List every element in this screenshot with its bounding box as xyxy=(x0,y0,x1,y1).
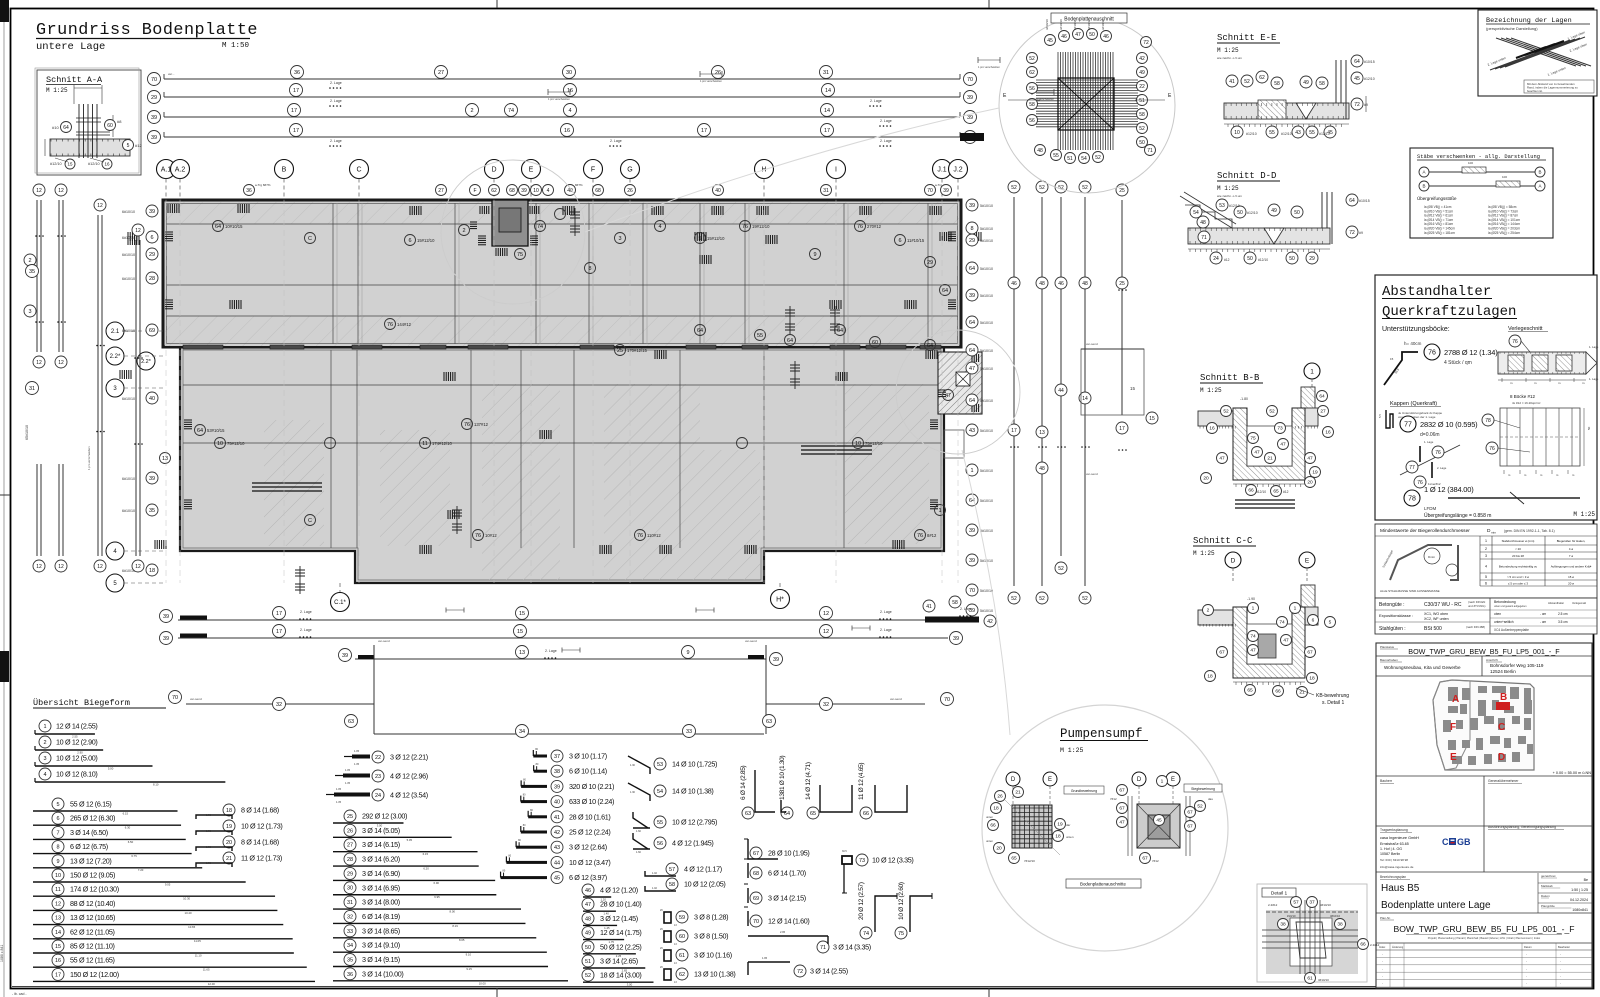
svg-text:46: 46 xyxy=(1061,34,1067,40)
svg-text:3#10/10: 3#10/10 xyxy=(1320,903,1331,907)
svg-text:42: 42 xyxy=(987,619,993,625)
svg-text:-: - xyxy=(1526,974,1527,978)
svg-text:74: 74 xyxy=(1279,620,1285,626)
svg-text:oben: oben xyxy=(1494,612,1501,616)
svg-text:3 Ø 14 (5.05): 3 Ø 14 (5.05) xyxy=(362,826,400,835)
svg-text:4x #12 = 16.20qm/m²: 4x #12 = 16.20qm/m² xyxy=(1512,401,1540,405)
svg-text:47: 47 xyxy=(585,902,591,908)
svg-text:5#10/10: 5#10/10 xyxy=(980,589,993,593)
svg-text:33: 33 xyxy=(686,729,692,735)
svg-text:3 Ø 8 (1.28): 3 Ø 8 (1.28) xyxy=(694,913,728,922)
svg-text:39: 39 xyxy=(953,636,959,642)
svg-text:53: 53 xyxy=(657,762,663,768)
svg-text:56: 56 xyxy=(1029,86,1035,92)
svg-text:5#10/10: 5#10/10 xyxy=(980,609,993,613)
svg-text:54: 54 xyxy=(657,789,663,795)
svg-text:2.2*: 2.2* xyxy=(110,354,121,360)
svg-text:Schnitt E-E: Schnitt E-E xyxy=(1217,33,1276,43)
svg-text:Dmin: Dmin xyxy=(1428,555,1435,559)
svg-text:72: 72 xyxy=(1354,102,1360,108)
svg-text:6.30: 6.30 xyxy=(125,826,131,830)
svg-text:3 Ø 14 (10.00): 3 Ø 14 (10.00) xyxy=(362,969,403,978)
svg-text:Schnitt B-B: Schnitt B-B xyxy=(1200,373,1260,383)
svg-text:76: 76 xyxy=(1512,339,1518,345)
svg-text:75#12/10: 75#12/10 xyxy=(865,441,883,446)
svg-text:64: 64 xyxy=(969,320,975,326)
svg-text:68: 68 xyxy=(509,188,515,194)
svg-text:E: E xyxy=(529,167,534,174)
svg-text:43: 43 xyxy=(1295,130,1301,136)
svg-text:12.00: 12.00 xyxy=(208,982,215,986)
svg-text:4 ø: 4 ø xyxy=(1569,547,1573,551)
svg-text:+ 0.00 = 55.00 m ü.NN: + 0.00 = 55.00 m ü.NN xyxy=(1553,771,1592,775)
svg-text:6: 6 xyxy=(1485,582,1487,586)
svg-text:Bodenplatte untere Lage: Bodenplatte untere Lage xyxy=(1381,900,1491,911)
svg-text:6.95: 6.95 xyxy=(434,895,440,899)
svg-text:-: - xyxy=(1526,982,1527,986)
svg-text:- cm: - cm xyxy=(1540,612,1547,616)
svg-text:47: 47 xyxy=(969,366,975,372)
svg-text:Index: Index xyxy=(1379,945,1386,949)
svg-text:47: 47 xyxy=(1119,820,1125,826)
svg-text:67: 67 xyxy=(1119,788,1125,794)
svg-text:76: 76 xyxy=(1417,480,1423,486)
svg-text:< 20: < 20 xyxy=(1515,547,1521,551)
svg-text:37: 37 xyxy=(1309,900,1315,906)
svg-text:38: 38 xyxy=(554,769,560,775)
svg-text:5#10/10: 5#10/10 xyxy=(980,267,993,271)
svg-text:52: 52 xyxy=(1011,185,1017,191)
svg-text:67: 67 xyxy=(753,851,759,857)
svg-text:1 Ø 12 (384.00): 1 Ø 12 (384.00) xyxy=(1424,485,1474,494)
svg-text:71: 71 xyxy=(820,945,826,951)
svg-text:40: 40 xyxy=(149,396,155,402)
svg-text:15: 15 xyxy=(1130,386,1136,391)
svg-text:67: 67 xyxy=(1119,806,1125,812)
svg-text:Querkraftzulagen: Querkraftzulagen xyxy=(1382,304,1516,320)
svg-text:-1.90: -1.90 xyxy=(1247,597,1255,601)
svg-text:G: G xyxy=(627,167,632,174)
svg-text:20 Ø 12 (2.57): 20 Ø 12 (2.57) xyxy=(858,882,865,920)
svg-text:39: 39 xyxy=(342,653,348,659)
svg-text:Plangröße: Plangröße xyxy=(1541,904,1555,908)
svg-text:5: 5 xyxy=(698,236,701,242)
svg-text:50: 50 xyxy=(1289,256,1295,262)
svg-text:10587 Berlin: 10587 Berlin xyxy=(1380,852,1400,856)
svg-text:2-3#12: 2-3#12 xyxy=(1370,943,1380,947)
svg-text:A: A xyxy=(1538,184,1541,189)
svg-text:- ib. cad -: - ib. cad - xyxy=(12,992,27,996)
svg-text:52: 52 xyxy=(1082,185,1088,191)
svg-text:46: 46 xyxy=(1103,34,1109,40)
svg-text:33: 33 xyxy=(347,929,353,935)
svg-text:10: 10 xyxy=(1234,130,1240,136)
svg-text:2. Lage: 2. Lage xyxy=(880,610,892,614)
svg-text:unten und gesamt aufgegeben: unten und gesamt aufgegeben xyxy=(1494,605,1527,608)
svg-text:10: 10 xyxy=(533,188,539,194)
svg-text:E: E xyxy=(1305,557,1310,564)
svg-text:51: 51 xyxy=(1067,156,1073,162)
svg-text:11.65: 11.65 xyxy=(203,968,210,972)
svg-text:ver-send: ver-send xyxy=(378,639,390,643)
svg-text:Betondeckung: Betondeckung xyxy=(1494,600,1516,604)
svg-text:#12/10: #12/10 xyxy=(1246,132,1257,136)
svg-text:6 Ø 10 (1.14): 6 Ø 10 (1.14) xyxy=(569,767,607,776)
svg-text:ver-send: ver-send xyxy=(190,697,202,701)
svg-text:30: 30 xyxy=(347,886,353,892)
svg-text:20: 20 xyxy=(226,840,232,846)
svg-text:4 Ø 12 (1.17): 4 Ø 12 (1.17) xyxy=(684,865,722,874)
svg-text:Schnitt A-A: Schnitt A-A xyxy=(46,75,103,85)
svg-text:15: 15 xyxy=(1390,357,1394,361)
svg-text:6.15: 6.15 xyxy=(423,852,429,856)
svg-text:D: D xyxy=(1498,752,1505,763)
svg-text:1: 1 xyxy=(1252,606,1255,612)
svg-text:Wohnungsneubau, Kita und Gewer: Wohnungsneubau, Kita und Gewerbe xyxy=(1384,665,1461,670)
svg-text:58: 58 xyxy=(1029,102,1035,108)
svg-text:A.2: A.2 xyxy=(175,167,186,174)
svg-text:64: 64 xyxy=(215,224,221,230)
svg-text:39: 39 xyxy=(969,203,975,209)
svg-text:I: I xyxy=(835,167,837,174)
svg-text:18: 18 xyxy=(149,568,155,574)
svg-text:26: 26 xyxy=(347,828,353,834)
svg-text:58: 58 xyxy=(952,600,958,606)
svg-text:63: 63 xyxy=(348,719,354,725)
svg-text:1. Hof | 4. OG: 1. Hof | 4. OG xyxy=(1380,847,1402,851)
svg-text:2.95: 2.95 xyxy=(780,930,786,934)
svg-text:48: 48 xyxy=(1039,466,1045,472)
svg-text:75: 75 xyxy=(898,931,904,937)
svg-text:21: 21 xyxy=(1015,790,1021,796)
svg-text:C: C xyxy=(308,518,312,524)
svg-text:10 Ø 12 (2.795): 10 Ø 12 (2.795) xyxy=(672,818,717,827)
svg-text:und ZTV-ING): und ZTV-ING) xyxy=(1468,604,1485,608)
svg-text:E: E xyxy=(1048,777,1052,783)
svg-text:39: 39 xyxy=(554,784,560,790)
svg-text:6 Ø 12 (6.75): 6 Ø 12 (6.75) xyxy=(70,842,108,851)
svg-text:15 ø: 15 ø xyxy=(1568,575,1574,579)
svg-text:39: 39 xyxy=(967,95,973,101)
svg-text:Stahlgüten :: Stahlgüten : xyxy=(1379,626,1406,632)
svg-text:Ernststraße 63-65: Ernststraße 63-65 xyxy=(1380,842,1409,846)
svg-text:270#12: 270#12 xyxy=(867,224,882,229)
svg-text:1. Lage: 1. Lage xyxy=(1589,377,1599,381)
svg-text:174#12/10: 174#12/10 xyxy=(432,441,452,446)
svg-text:2. Lage: 2. Lage xyxy=(870,99,882,103)
svg-text:2: 2 xyxy=(470,108,473,114)
svg-text:5#10/10: 5#10/10 xyxy=(980,499,993,503)
svg-text:633 Ø 10 (2.24): 633 Ø 10 (2.24) xyxy=(569,797,614,806)
svg-text:66: 66 xyxy=(990,823,996,829)
svg-text:7#12: 7#12 xyxy=(1152,859,1159,863)
svg-text:5.00: 5.00 xyxy=(108,766,114,770)
svg-text:9.05: 9.05 xyxy=(165,882,171,886)
svg-text:J.1: J.1 xyxy=(937,167,946,174)
svg-text:64: 64 xyxy=(1354,59,1360,65)
svg-text:76: 76 xyxy=(1489,446,1495,452)
svg-text:50 Ø 12 (2.25): 50 Ø 12 (2.25) xyxy=(600,942,641,951)
svg-text:beachten ist.: beachten ist. xyxy=(1527,89,1543,93)
svg-text:3#10/10: 3#10/10 xyxy=(1087,19,1091,30)
svg-text:11 Ø 12 (4.65): 11 Ø 12 (4.65) xyxy=(858,763,865,800)
svg-text:52: 52 xyxy=(585,973,591,979)
svg-text:7#12: 7#12 xyxy=(1110,797,1117,801)
svg-text:13: 13 xyxy=(519,650,525,656)
svg-text:76: 76 xyxy=(1435,450,1441,456)
svg-text:10: 10 xyxy=(217,441,223,447)
svg-text:2.5 cm: 2.5 cm xyxy=(1558,612,1568,616)
svg-text:10 Ø 12 (2.60): 10 Ø 12 (2.60) xyxy=(898,882,905,920)
svg-text:6.90: 6.90 xyxy=(434,881,440,885)
svg-text:3: 3 xyxy=(43,756,46,762)
svg-text:14 Ø 10 (1.725): 14 Ø 10 (1.725) xyxy=(672,760,717,769)
svg-text:42: 42 xyxy=(554,830,560,836)
svg-text:68: 68 xyxy=(595,188,601,194)
svg-text:C: C xyxy=(308,236,312,242)
svg-text:61: 61 xyxy=(1307,976,1313,982)
svg-text:64: 64 xyxy=(1349,198,1355,204)
svg-text:3 Ø 14 (2.55): 3 Ø 14 (2.55) xyxy=(810,967,848,976)
svg-text:1: 1 xyxy=(970,468,973,474)
svg-text:64: 64 xyxy=(969,266,975,272)
svg-text:casa Ingenieure GmbH: casa Ingenieure GmbH xyxy=(1380,836,1419,840)
svg-text:52: 52 xyxy=(1139,126,1145,132)
svg-text:Biegerollen für Haken,: Biegerollen für Haken, xyxy=(1557,539,1586,543)
svg-text:64: 64 xyxy=(837,328,843,334)
svg-text:77: 77 xyxy=(1409,465,1415,471)
svg-text:66: 66 xyxy=(1360,942,1366,948)
svg-text:10 Ø 12 (1.73): 10 Ø 12 (1.73) xyxy=(241,822,282,831)
svg-text:54: 54 xyxy=(1081,156,1087,162)
svg-text:76: 76 xyxy=(464,422,470,428)
svg-text:D: D xyxy=(1011,777,1016,783)
svg-text:1 pro verschweben: 1 pro verschweben xyxy=(700,79,722,83)
svg-text:h= 40cm: h= 40cm xyxy=(1404,341,1422,346)
svg-text:GB: GB xyxy=(1457,837,1471,847)
svg-text:48: 48 xyxy=(1200,220,1206,226)
svg-text:12: 12 xyxy=(58,564,64,570)
svg-text:67: 67 xyxy=(1142,856,1148,862)
svg-text:37: 37 xyxy=(554,754,560,760)
svg-text:E: E xyxy=(1450,752,1457,763)
svg-text:2-3#12: 2-3#12 xyxy=(1268,903,1278,907)
svg-text:9: 9 xyxy=(56,859,59,865)
svg-text:47: 47 xyxy=(1307,456,1313,462)
svg-text:3 Ø 10 (1.17): 3 Ø 10 (1.17) xyxy=(569,752,607,761)
svg-text:32: 32 xyxy=(347,914,353,920)
svg-text:58: 58 xyxy=(1274,81,1280,87)
svg-text:47: 47 xyxy=(1075,32,1081,38)
svg-text:2. Lage: 2. Lage xyxy=(610,139,622,143)
svg-text:#10/15: #10/15 xyxy=(1364,60,1375,64)
svg-text:55: 55 xyxy=(757,333,763,339)
svg-text:320 Ø 10 (2.21): 320 Ø 10 (2.21) xyxy=(569,782,614,791)
svg-text:15: 15 xyxy=(67,162,73,167)
svg-text:47: 47 xyxy=(1283,638,1289,644)
svg-text:> 5 cm und > 3 ø: > 5 cm und > 3 ø xyxy=(1507,575,1529,579)
svg-text:29: 29 xyxy=(927,260,933,266)
svg-text:12: 12 xyxy=(36,188,42,194)
svg-text:3#10/10: 3#10/10 xyxy=(1059,19,1063,30)
svg-text:1.38: 1.38 xyxy=(206,829,212,833)
svg-text:19: 19 xyxy=(226,824,232,830)
svg-text:17: 17 xyxy=(276,629,282,635)
svg-text:69: 69 xyxy=(149,328,155,334)
svg-text:39: 39 xyxy=(969,558,975,564)
svg-text:1.05: 1.05 xyxy=(354,749,360,753)
svg-text:2788 Ø 12 (1.34): 2788 Ø 12 (1.34) xyxy=(1444,348,1498,357)
svg-text:76: 76 xyxy=(917,533,923,539)
svg-text:#12: #12 xyxy=(1283,490,1289,494)
svg-text:70: 70 xyxy=(967,77,973,83)
svg-text:70: 70 xyxy=(151,77,157,83)
svg-text:-: - xyxy=(1382,982,1383,986)
svg-text:3: 3 xyxy=(1485,554,1487,558)
svg-text:#12/10: #12/10 xyxy=(1229,204,1240,208)
svg-text:-: - xyxy=(1560,967,1561,971)
svg-text:25 Ø 12 (2.24): 25 Ø 12 (2.24) xyxy=(569,828,610,837)
svg-text:1: 1 xyxy=(938,508,941,514)
svg-text:2. Lage: 2. Lage xyxy=(960,607,972,611)
svg-text:26: 26 xyxy=(715,70,721,76)
svg-text:27: 27 xyxy=(438,70,444,76)
svg-text:17: 17 xyxy=(293,88,299,94)
svg-text:66: 66 xyxy=(1275,689,1281,695)
svg-text:C: C xyxy=(356,167,361,174)
svg-text:4 Ø 12 (2.96): 4 Ø 12 (2.96) xyxy=(390,772,428,781)
svg-text:C: C xyxy=(1498,722,1505,733)
svg-text:66: 66 xyxy=(863,811,869,817)
svg-text:14 Ø 12 (4.71): 14 Ø 12 (4.71) xyxy=(805,762,812,800)
svg-text:ver-send: ver-send xyxy=(1086,342,1098,346)
svg-text:52: 52 xyxy=(1039,596,1045,602)
svg-text:#10: #10 xyxy=(52,125,59,130)
svg-text:55 Ø 12 (11.65): 55 Ø 12 (11.65) xyxy=(70,956,115,965)
svg-text:6#10/10: 6#10/10 xyxy=(122,253,135,257)
svg-text:unten: unten xyxy=(1066,835,1074,839)
svg-text:72: 72 xyxy=(1349,230,1355,236)
svg-text:174 Ø 12 (10.30): 174 Ø 12 (10.30) xyxy=(70,885,119,894)
svg-text:19: 19 xyxy=(1057,822,1063,828)
svg-text:51: 51 xyxy=(1139,98,1145,104)
svg-text:12: 12 xyxy=(135,564,141,570)
svg-text:36: 36 xyxy=(294,70,300,76)
svg-text:65#10/10: 65#10/10 xyxy=(25,425,29,440)
svg-text:6: 6 xyxy=(1312,618,1315,624)
svg-text:1.60: 1.60 xyxy=(636,851,641,854)
svg-text:6: 6 xyxy=(150,235,153,241)
svg-text:C: C xyxy=(1442,837,1449,847)
svg-text:5#10/10: 5#10/10 xyxy=(980,469,993,473)
svg-text:4: 4 xyxy=(43,772,46,778)
svg-text:a-Trg 8#7%: a-Trg 8#7% xyxy=(255,183,271,187)
svg-text:65: 65 xyxy=(1273,489,1279,495)
svg-text:10 Ø 12 (2.05): 10 Ø 12 (2.05) xyxy=(684,880,725,889)
svg-text:M 1:25: M 1:25 xyxy=(1573,511,1595,518)
svg-text:KB-bewehrung: KB-bewehrung xyxy=(1316,693,1349,699)
svg-text:70: 70 xyxy=(172,695,178,701)
svg-text:2: 2 xyxy=(1207,608,1210,614)
svg-text:ver-send: ver-send xyxy=(1086,472,1098,476)
svg-text:10.00: 10.00 xyxy=(479,981,486,985)
svg-text:52: 52 xyxy=(1095,155,1101,161)
svg-text:3: 3 xyxy=(618,236,621,242)
svg-text:29: 29 xyxy=(347,871,353,877)
svg-text:70: 70 xyxy=(753,919,759,925)
svg-text:Generalübernehmer: Generalübernehmer xyxy=(1488,779,1519,783)
svg-text:45: 45 xyxy=(1047,38,1053,44)
svg-text:29: 29 xyxy=(151,95,157,101)
svg-text:15: 15 xyxy=(517,629,523,635)
svg-text:65: 65 xyxy=(1011,856,1017,862)
svg-text:63: 63 xyxy=(745,811,751,817)
svg-text:50: 50 xyxy=(585,945,591,951)
svg-text:68: 68 xyxy=(753,871,759,877)
svg-text:17: 17 xyxy=(701,128,707,134)
svg-text:46: 46 xyxy=(1058,281,1064,287)
svg-text:64: 64 xyxy=(927,343,933,349)
svg-text:50: 50 xyxy=(1294,210,1300,216)
svg-text:D: D xyxy=(1231,557,1236,564)
svg-text:8: 8 xyxy=(970,226,973,232)
svg-text:150 Ø 12 (9.05): 150 Ø 12 (9.05) xyxy=(70,871,115,880)
svg-text:38: 38 xyxy=(1337,922,1343,928)
svg-text:2832 Ø 10 (0.595): 2832 Ø 10 (0.595) xyxy=(1420,420,1478,429)
svg-text:76: 76 xyxy=(475,533,481,539)
svg-text:76: 76 xyxy=(387,322,393,328)
svg-text:28 Ø 10 (1.40): 28 Ø 10 (1.40) xyxy=(600,900,641,909)
svg-text:16: 16 xyxy=(564,128,570,134)
svg-text:28: 28 xyxy=(347,857,353,863)
svg-text:5#10/10: 5#10/10 xyxy=(980,367,993,371)
svg-text:E: E xyxy=(1171,777,1175,783)
svg-text:8.65: 8.65 xyxy=(459,938,465,942)
svg-text:26: 26 xyxy=(997,794,1003,800)
svg-text:10: 10 xyxy=(855,441,861,447)
svg-text:Bauvorhaben: Bauvorhaben xyxy=(1380,658,1398,662)
svg-text:61: 61 xyxy=(679,953,685,959)
svg-text:36: 36 xyxy=(347,972,353,978)
svg-text:71: 71 xyxy=(1201,235,1207,241)
svg-text:Verlegeschnitt: Verlegeschnitt xyxy=(1508,326,1543,332)
svg-text:55: 55 xyxy=(1309,130,1315,136)
svg-text:6#10/10: 6#10/10 xyxy=(122,236,135,240)
svg-text:50: 50 xyxy=(1089,32,1095,38)
svg-text:110#12: 110#12 xyxy=(647,533,661,538)
svg-text:Planstatus: Planstatus xyxy=(1380,645,1395,649)
svg-text:5#10/10: 5#10/10 xyxy=(980,227,993,231)
svg-text:#12/10: #12/10 xyxy=(1258,258,1268,262)
svg-text:14: 14 xyxy=(55,930,61,936)
svg-text:12 Ø 14 (1.75): 12 Ø 14 (1.75) xyxy=(600,928,641,937)
svg-text:64: 64 xyxy=(697,328,703,334)
svg-text:12: 12 xyxy=(36,564,42,570)
svg-text:16: 16 xyxy=(1209,426,1215,432)
svg-text:10 Ø 12 (2.90): 10 Ø 12 (2.90) xyxy=(56,738,97,747)
svg-text:6#10/10: 6#10/10 xyxy=(122,210,135,214)
svg-text:70: 70 xyxy=(927,188,933,194)
svg-text:56: 56 xyxy=(1029,118,1035,124)
svg-text:-: - xyxy=(1382,952,1383,956)
svg-text:17: 17 xyxy=(291,108,297,114)
svg-text:2. Lage: 2. Lage xyxy=(545,649,557,653)
svg-text:unten+seitlich: unten+seitlich xyxy=(1494,620,1514,624)
svg-text:18 Ø 14 (3.00): 18 Ø 14 (3.00) xyxy=(600,971,641,980)
svg-text:35: 35 xyxy=(29,269,35,275)
svg-text:18: 18 xyxy=(1207,674,1213,680)
svg-text:5: 5 xyxy=(56,802,59,808)
